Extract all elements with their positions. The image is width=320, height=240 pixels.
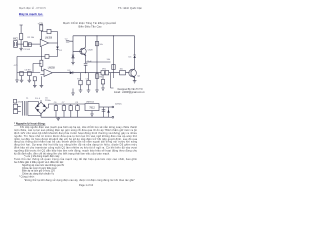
svg-text:LM358: LM358 bbox=[48, 67, 56, 69]
svg-text:D1- 4: D1- 4 bbox=[35, 98, 41, 100]
svg-text:LM7812: LM7812 bbox=[86, 102, 95, 104]
bridge rectifier bbox=[35, 102, 47, 114]
capacitor C7 bbox=[63, 104, 65, 117]
ground under U2 bbox=[40, 76, 42, 85]
ground x97 bbox=[95, 90, 99, 92]
wire bbox=[28, 43, 41, 45]
LED D6 bbox=[108, 107, 110, 117]
power stub P1 bbox=[20, 25, 23, 34]
ground under regulator bbox=[91, 111, 93, 114]
resistor R7 bbox=[112, 65, 115, 70]
svg-text:* Nguyên lý hoạt động:: * Nguyên lý hoạt động: bbox=[14, 122, 46, 126]
resistor R1 bbox=[19, 34, 22, 40]
svg-text:C7: C7 bbox=[62, 102, 66, 104]
resistor R9 bbox=[28, 71, 32, 75]
feedback loop U1 bbox=[41, 32, 57, 44]
capacitor C8 bbox=[77, 104, 79, 117]
output terminals bbox=[112, 106, 114, 108]
svg-text:7812: 7812 bbox=[89, 107, 95, 110]
capacitor C4 branch bbox=[84, 63, 88, 72]
svg-text:4.7k: 4.7k bbox=[14, 65, 18, 67]
resistor R8 on top wire bbox=[45, 55, 49, 59]
resistor Rf1 bbox=[47, 29, 51, 33]
transformer T1 bbox=[22, 101, 28, 116]
transistor Q2 bbox=[80, 48, 86, 54]
ground Q1 bbox=[133, 81, 137, 83]
vertical net x113.5 bbox=[113, 36, 115, 78]
stub x88.5 with C5 bbox=[88, 73, 90, 90]
capacitor C1 bbox=[24, 42, 28, 47]
stage2 loop bbox=[17, 57, 58, 73]
svg-text:T1: T1 bbox=[26, 98, 29, 100]
microphone jack J1 bbox=[14, 41, 18, 48]
svg-text:TS : Đinh Quốc Cận: TS : Đinh Quốc Cận bbox=[118, 6, 143, 10]
zener D2b bbox=[72, 55, 74, 58]
svg-text:C828: C828 bbox=[88, 50, 94, 52]
svg-text:C8: C8 bbox=[75, 102, 79, 104]
svg-text:C6: C6 bbox=[54, 102, 58, 104]
stub x103 with R13b bbox=[102, 75, 104, 88]
svg-text:10k: 10k bbox=[120, 68, 124, 70]
wire from D1 down to loop bbox=[57, 49, 59, 56]
vertical net x134.6 with diode D5 bbox=[134, 36, 136, 55]
capacitor C6 bbox=[55, 104, 57, 117]
paragraph A bbox=[14, 124, 138, 155]
capacitor C3 bbox=[20, 71, 23, 75]
svg-text:D5: D5 bbox=[129, 57, 133, 59]
svg-text:Mạch điện tử - KTCN 5: Mạch điện tử - KTCN 5 bbox=[19, 6, 46, 10]
resistor R15 bbox=[70, 104, 72, 117]
wires to bridge bbox=[28, 102, 41, 116]
svg-text:"Đừng thử lại khi đang sử dụng: "Đừng thử lại khi đang sử dụng điện cao … bbox=[24, 179, 135, 182]
diode D1 bbox=[57, 43, 59, 46]
svg-text:Đây là mạch lọc.: Đây là mạch lọc. bbox=[19, 12, 43, 16]
resistor R5 bbox=[96, 41, 99, 46]
wire bbox=[17, 43, 23, 45]
ground left bbox=[16, 73, 18, 81]
svg-text:C2: C2 bbox=[65, 38, 69, 40]
wire output U1 bbox=[49, 42, 58, 44]
svg-text:50k: 50k bbox=[107, 59, 110, 61]
svg-text:Biến Điệu Tần Cao: Biến Điệu Tần Cao bbox=[79, 25, 103, 29]
vertical net x97 bbox=[96, 36, 98, 80]
svg-text:Q1: Q1 bbox=[137, 75, 141, 77]
svg-text:MIC1: MIC1 bbox=[13, 38, 19, 40]
capacitor C3b stub bbox=[33, 77, 36, 81]
svg-text:12VDC: 12VDC bbox=[115, 104, 122, 106]
filter rails bbox=[41, 104, 109, 117]
ground bbox=[19, 49, 23, 51]
ground under C3 bbox=[21, 76, 23, 81]
wire bus bbox=[40, 31, 42, 39]
svg-text:C3 R9: C3 R9 bbox=[25, 69, 32, 71]
svg-text:Designed By Văn Trí TN: Designed By Văn Trí TN bbox=[118, 88, 143, 91]
svg-text:R6: R6 bbox=[100, 76, 103, 78]
junction dots bbox=[96, 35, 97, 36]
svg-text:C1 104: C1 104 bbox=[23, 49, 31, 51]
notes section bbox=[14, 155, 137, 182]
ground x73 bbox=[71, 63, 75, 65]
resistor R3 bbox=[40, 24, 43, 26]
resistor R10 bbox=[40, 60, 43, 66]
svg-text:Email : vt2008@gmail.com.vn: Email : vt2008@gmail.com.vn bbox=[114, 91, 145, 94]
svg-text:D1: D1 bbox=[59, 50, 63, 52]
top rail bbox=[73, 35, 135, 37]
svg-text:2200u: 2200u bbox=[45, 100, 52, 102]
svg-text:LM358: LM358 bbox=[45, 38, 53, 40]
svg-text:10k: 10k bbox=[99, 44, 103, 46]
svg-text:220V: 220V bbox=[17, 102, 22, 104]
vertical x110.5 bbox=[111, 73, 114, 88]
wire output U2 bbox=[52, 72, 129, 74]
svg-text:Mạch Chỉnh Điện Tầng Tái Đồng: Mạch Chỉnh Điện Tầng Tái Đồng Quạt Để bbox=[63, 21, 117, 25]
svg-text:Page 1 of 10: Page 1 of 10 bbox=[79, 184, 94, 187]
svg-text:R2 10k: R2 10k bbox=[28, 37, 36, 39]
resistor R6 bbox=[95, 74, 98, 79]
ground mid bbox=[72, 89, 74, 94]
capacitor C2 bbox=[66, 40, 73, 42]
AC plug bbox=[13, 99, 16, 103]
stub x80.5 with R11 bbox=[80, 73, 82, 90]
ground bottom rail bbox=[57, 117, 59, 118]
transistor Q1 bbox=[129, 69, 137, 77]
net vertical x73 bbox=[72, 36, 74, 63]
capacitor C9 bbox=[103, 107, 105, 117]
ground under R9 bbox=[28, 76, 30, 81]
